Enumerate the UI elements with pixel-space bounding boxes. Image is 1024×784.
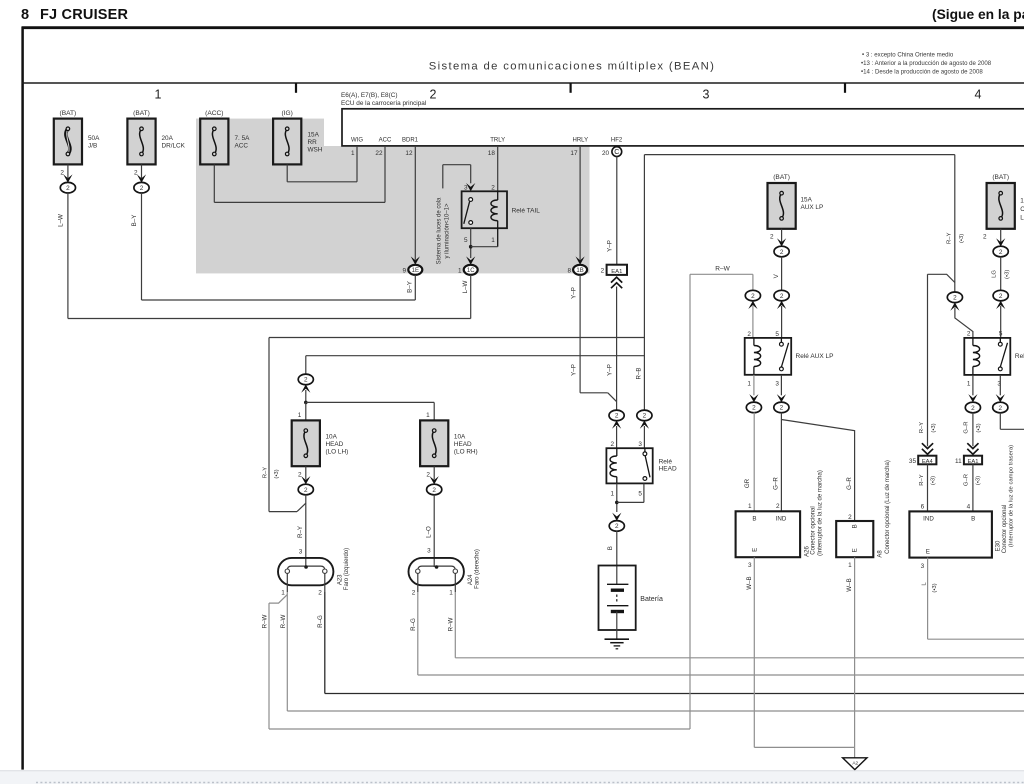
svg-text:•13 : Anterior a la producción: •13 : Anterior a la producción de agosto… <box>861 60 992 67</box>
svg-text:GR: GR <box>744 478 751 488</box>
svg-text:IND: IND <box>923 515 934 522</box>
svg-text:2: 2 <box>610 441 614 448</box>
svg-text:W–B: W–B <box>846 578 853 591</box>
svg-text:2: 2 <box>999 249 1003 256</box>
svg-text:2: 2 <box>953 295 957 302</box>
svg-text:5: 5 <box>638 491 642 498</box>
svg-text:EA1: EA1 <box>611 269 622 275</box>
svg-text:15A: 15A <box>801 197 813 204</box>
svg-text:1: 1 <box>747 381 751 388</box>
svg-text:2: 2 <box>971 405 975 412</box>
svg-text:2: 2 <box>999 293 1003 300</box>
svg-text:L–W: L–W <box>462 280 469 293</box>
svg-text:2: 2 <box>751 293 755 300</box>
svg-text:Y–P: Y–P <box>606 240 613 252</box>
svg-text:AUX LP: AUX LP <box>801 204 824 211</box>
svg-text:L–W: L–W <box>57 214 64 227</box>
svg-text:R–G: R–G <box>410 618 417 631</box>
svg-text:(LO RH): (LO RH) <box>454 449 478 456</box>
svg-text:R–G: R–G <box>317 615 324 628</box>
svg-text:(•3): (•3) <box>930 476 936 485</box>
svg-text:(IG): (IG) <box>282 110 293 117</box>
svg-text:20: 20 <box>602 150 610 157</box>
svg-text:EA4: EA4 <box>922 459 934 465</box>
svg-text:2: 2 <box>304 487 308 494</box>
svg-text:2: 2 <box>983 234 987 241</box>
svg-text:2: 2 <box>752 405 756 412</box>
svg-text:2: 2 <box>780 405 784 412</box>
svg-text:2: 2 <box>776 503 780 510</box>
svg-text:2: 2 <box>967 331 971 338</box>
svg-text:R–W: R–W <box>447 617 454 631</box>
svg-text:5: 5 <box>775 331 779 338</box>
svg-text:(•3): (•3) <box>975 476 981 485</box>
svg-text:(LO LH): (LO LH) <box>326 449 349 456</box>
svg-text:R–Y: R–Y <box>262 467 268 479</box>
svg-text:R–W: R–W <box>262 614 269 628</box>
svg-text:10A: 10A <box>326 434 338 441</box>
svg-text:4: 4 <box>975 88 982 102</box>
svg-text:1: 1 <box>748 503 752 510</box>
svg-text:(•3): (•3) <box>274 469 280 478</box>
svg-text:• 3 : excepto China Oriente me: • 3 : excepto China Oriente medio <box>862 52 954 59</box>
svg-text:Relé TAIL: Relé TAIL <box>512 208 541 215</box>
svg-text:8: 8 <box>567 268 571 275</box>
svg-text:1C: 1C <box>467 268 475 274</box>
svg-text:15A: 15A <box>308 132 320 139</box>
svg-text:Faro (derecho): Faro (derecho) <box>474 549 480 589</box>
svg-text:Y–P: Y–P <box>607 364 614 376</box>
svg-text:2: 2 <box>848 514 852 521</box>
svg-text:DR/LCK: DR/LCK <box>162 143 186 150</box>
svg-text:1E: 1E <box>412 268 419 274</box>
svg-text:(Sigue en la página siguiente): (Sigue en la página siguiente) <box>932 7 1024 22</box>
svg-text:Conector opcional: Conector opcional <box>1002 505 1008 553</box>
svg-text:2: 2 <box>430 88 437 102</box>
svg-text:3: 3 <box>703 88 710 102</box>
svg-text:1: 1 <box>281 590 285 597</box>
svg-text:Sistema de luces de cola: Sistema de luces de cola <box>436 197 442 264</box>
svg-text:15A: 15A <box>1020 197 1024 204</box>
svg-text:1: 1 <box>449 590 453 597</box>
svg-text:(BAT): (BAT) <box>773 174 790 181</box>
svg-text:2: 2 <box>615 413 619 420</box>
svg-text:R–W: R–W <box>715 265 730 272</box>
svg-text:J/B: J/B <box>88 143 97 150</box>
svg-text:20A: 20A <box>162 135 174 142</box>
svg-text:2: 2 <box>134 169 138 176</box>
svg-text:2: 2 <box>298 471 302 478</box>
svg-text:E6(A), E7(B), E8(C): E6(A), E7(B), E8(C) <box>341 92 397 99</box>
svg-text:2: 2 <box>304 377 308 384</box>
svg-text:8: 8 <box>21 7 29 23</box>
svg-text:2: 2 <box>491 184 495 191</box>
svg-text:18: 18 <box>488 150 496 157</box>
svg-text:G–R: G–R <box>964 474 970 486</box>
svg-text:(BAT): (BAT) <box>992 174 1009 181</box>
svg-text:G–R: G–R <box>964 421 970 433</box>
svg-text:2: 2 <box>643 413 647 420</box>
svg-text:WIG: WIG <box>351 137 363 143</box>
svg-text:R–Y: R–Y <box>946 232 952 244</box>
svg-text:35: 35 <box>909 458 917 465</box>
svg-text:Sistema de comunicaciones múlt: Sistema de comunicaciones múltiplex (BEA… <box>429 61 716 73</box>
svg-text:9: 9 <box>402 268 406 275</box>
svg-text:3: 3 <box>427 547 431 554</box>
svg-text:2: 2 <box>140 185 144 192</box>
svg-text:G–R: G–R <box>846 477 853 490</box>
svg-text:(ACC): (ACC) <box>205 110 223 117</box>
svg-text:HEAD: HEAD <box>659 466 677 473</box>
svg-text:R–Y: R–Y <box>919 422 925 434</box>
svg-text:10A: 10A <box>454 434 466 441</box>
svg-text:LG: LG <box>991 270 997 278</box>
svg-text:•14 : Desde la producción de a: •14 : Desde la producción de agosto de 2… <box>861 69 983 76</box>
svg-text:ACC: ACC <box>235 143 249 150</box>
svg-text:(•3): (•3) <box>1004 270 1010 279</box>
svg-text:3: 3 <box>921 563 925 570</box>
svg-text:3: 3 <box>748 562 752 569</box>
svg-text:A23: A23 <box>337 574 343 585</box>
svg-text:11: 11 <box>955 458 962 465</box>
svg-text:R–Y: R–Y <box>919 474 925 486</box>
svg-text:2: 2 <box>770 234 774 241</box>
svg-text:4: 4 <box>967 504 971 511</box>
svg-text:B: B <box>971 515 975 522</box>
svg-text:Relé AUX LP: Relé AUX LP <box>796 353 834 360</box>
svg-text:A2: A2 <box>852 760 858 766</box>
svg-text:50A: 50A <box>88 135 100 142</box>
svg-text:B: B <box>607 546 614 550</box>
svg-text:WSH: WSH <box>308 146 323 153</box>
svg-text:(•3): (•3) <box>959 234 965 243</box>
svg-text:LP: LP <box>1020 214 1024 221</box>
svg-text:R–W: R–W <box>280 614 287 628</box>
svg-text:2: 2 <box>780 293 784 300</box>
svg-text:1B: 1B <box>576 268 583 274</box>
svg-text:HEAD: HEAD <box>326 441 344 448</box>
svg-text:R–Y: R–Y <box>297 526 304 538</box>
svg-text:(•3): (•3) <box>931 423 937 432</box>
svg-text:ACC: ACC <box>379 137 392 143</box>
svg-text:B: B <box>852 524 859 528</box>
svg-text:E: E <box>852 548 859 552</box>
svg-text:E: E <box>926 549 930 556</box>
svg-text:3: 3 <box>299 549 303 556</box>
svg-text:E: E <box>751 548 758 552</box>
svg-text:A8: A8 <box>877 550 883 558</box>
svg-text:1: 1 <box>298 412 302 419</box>
svg-text:CIG: CIG <box>1020 206 1024 213</box>
svg-text:A26: A26 <box>804 546 810 557</box>
svg-text:Batería: Batería <box>640 596 663 603</box>
svg-text:2: 2 <box>999 405 1003 412</box>
svg-text:R–B: R–B <box>635 367 642 379</box>
svg-text:Relé: Relé <box>659 458 673 465</box>
svg-text:B–Y: B–Y <box>406 281 413 293</box>
svg-text:1: 1 <box>458 268 462 275</box>
svg-text:1: 1 <box>967 381 971 388</box>
svg-text:IND: IND <box>776 515 787 522</box>
svg-text:2: 2 <box>432 487 436 494</box>
svg-text:1: 1 <box>426 412 430 419</box>
svg-text:BDR1: BDR1 <box>402 137 419 143</box>
svg-text:2: 2 <box>318 590 322 597</box>
svg-text:5: 5 <box>999 331 1003 338</box>
svg-text:B: B <box>752 515 756 522</box>
svg-text:1: 1 <box>155 88 162 102</box>
svg-text:3: 3 <box>638 441 642 448</box>
svg-text:E30: E30 <box>995 540 1001 551</box>
svg-text:2: 2 <box>66 185 70 192</box>
svg-text:2: 2 <box>60 169 64 176</box>
svg-text:TRLY: TRLY <box>490 137 505 143</box>
svg-text:B–Y: B–Y <box>131 215 138 227</box>
svg-text:Faro (izquierdo): Faro (izquierdo) <box>344 548 350 590</box>
svg-text:W–B: W–B <box>746 576 753 589</box>
svg-text:5: 5 <box>464 237 468 244</box>
svg-text:(BAT): (BAT) <box>133 110 150 117</box>
svg-text:HEAD: HEAD <box>454 441 472 448</box>
svg-text:22: 22 <box>375 150 383 157</box>
svg-text:6: 6 <box>921 504 925 511</box>
svg-text:2: 2 <box>747 331 751 338</box>
svg-text:HF2: HF2 <box>611 137 623 143</box>
svg-text:HRLY: HRLY <box>573 137 589 143</box>
svg-text:Relé: Relé <box>1015 353 1024 360</box>
svg-text:2: 2 <box>601 268 605 275</box>
svg-text:y iluminación<10–1>: y iluminación<10–1> <box>445 203 451 259</box>
svg-text:Y–P: Y–P <box>571 364 578 376</box>
svg-text:2: 2 <box>615 523 619 530</box>
svg-text:RR: RR <box>308 139 318 146</box>
svg-text:C: C <box>614 149 619 156</box>
svg-text:ECU de la carrocería principal: ECU de la carrocería principal <box>341 100 426 107</box>
svg-text:A24: A24 <box>468 574 474 585</box>
svg-text:(BAT): (BAT) <box>60 110 77 117</box>
svg-text:Y–P: Y–P <box>571 287 578 299</box>
svg-text:2: 2 <box>412 590 416 597</box>
svg-text:(Interruptor de la luz de camp: (Interruptor de la luz de campo trasera) <box>1009 445 1015 547</box>
svg-text:EA1: EA1 <box>968 459 979 465</box>
svg-text:Conector opcional (Luz de marc: Conector opcional (Luz de marcha) <box>885 460 891 554</box>
svg-text:1: 1 <box>610 491 614 498</box>
svg-text:G–R: G–R <box>772 477 779 490</box>
svg-text:7. 5A: 7. 5A <box>235 135 251 142</box>
svg-text:L–O: L–O <box>425 526 432 538</box>
svg-text:3: 3 <box>775 381 779 388</box>
svg-text:1: 1 <box>491 237 495 244</box>
svg-text:3: 3 <box>464 184 468 191</box>
svg-text:12: 12 <box>405 150 413 157</box>
svg-text:17: 17 <box>570 150 578 157</box>
svg-text:(•3): (•3) <box>976 423 982 432</box>
svg-text:1: 1 <box>351 150 355 157</box>
svg-text:FJ CRUISER: FJ CRUISER <box>40 7 129 23</box>
svg-text:2: 2 <box>426 471 430 478</box>
svg-text:(Interruptor de la luz de marc: (Interruptor de la luz de marcha) <box>818 470 824 556</box>
svg-text:Conector opcional: Conector opcional <box>811 506 817 554</box>
svg-text:(•3): (•3) <box>932 583 938 592</box>
svg-text:2: 2 <box>780 249 784 256</box>
svg-text:1: 1 <box>848 562 852 569</box>
